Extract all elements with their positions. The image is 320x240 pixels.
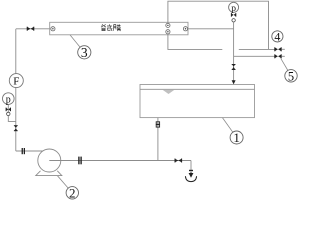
drain bar: [189, 170, 193, 171]
label circle 1: [230, 130, 243, 145]
svg-text:2: 2: [69, 185, 76, 200]
gauge valve right: [231, 13, 236, 17]
wire right vertical return: [233, 23, 235, 81]
pressure gauge P right bubble: [229, 2, 239, 14]
wire stub after valve 4: [282, 48, 285, 50]
pressure gauge P left bubble: [3, 93, 15, 106]
gauge valve left: [6, 108, 11, 112]
valve on bottom line: [175, 159, 183, 163]
membrane module M3 rect: [50, 22, 188, 35]
valve on return vertical: [232, 64, 236, 70]
wire permeate down: [168, 34, 222, 50]
pump U2 circle: [38, 149, 61, 172]
wire feed horizontal top-left: [16, 28, 50, 30]
membrane top port: [166, 23, 170, 27]
wire lower branch to valve 5: [234, 55, 275, 57]
valve on left vertical line: [14, 125, 18, 131]
leader to label 2: [58, 176, 69, 188]
wire drain drop: [190, 161, 192, 171]
wire tank outlet: [157, 118, 159, 161]
svg-text:4: 4: [274, 30, 280, 44]
svg-text:1: 1: [233, 130, 240, 145]
drain funnel: [185, 176, 196, 181]
wire feed vertical left: [15, 29, 17, 151]
svg-text:3: 3: [81, 45, 88, 60]
wire stub after valve 5: [282, 55, 285, 57]
arrow into tank: [232, 80, 236, 84]
label circle 4: [272, 30, 283, 44]
flange on suction: [22, 148, 25, 154]
level mark triangle: [163, 90, 175, 94]
flange on discharge: [78, 157, 82, 165]
union on tank outlet: [156, 122, 159, 127]
svg-text:5: 5: [288, 69, 294, 83]
pump base: [36, 171, 62, 176]
label circle 2: [66, 185, 78, 200]
tank liquid level line: [140, 88, 255, 90]
pressure gauge P left stub: [8, 104, 16, 121]
leader to label 5: [281, 58, 288, 70]
svg-text:F: F: [13, 76, 19, 88]
tank T1: [140, 85, 255, 118]
membrane bottom port: [166, 30, 170, 34]
wire membrane top riser: [168, 1, 269, 49]
wire retentate line to right: [188, 28, 234, 30]
wire suction line: [16, 150, 45, 152]
leader to label 1: [222, 118, 232, 133]
glyph guan: [102, 24, 106, 25]
glyph shi: [107, 24, 112, 31]
wire discharge line: [49, 160, 191, 162]
wire permeate to valve 4: [239, 48, 275, 50]
valve outlet 5: [274, 54, 281, 58]
svg-text:p: p: [231, 4, 236, 14]
svg-text:p: p: [6, 94, 11, 105]
gauge tap circle left: [7, 112, 10, 115]
label circle 5: [285, 69, 297, 83]
leader to label 3: [70, 35, 80, 47]
gauge tap circle right: [232, 19, 235, 22]
membrane left port: [51, 27, 55, 31]
glyph mo: [114, 25, 116, 31]
valve feed (top-left): [27, 27, 35, 31]
label circle 3: [78, 45, 91, 60]
valve outlet 4: [274, 47, 281, 51]
drain arrow: [189, 172, 192, 177]
membrane right port: [183, 27, 187, 31]
membrane label text 管式膜: [101, 24, 121, 31]
flow meter F1: [9, 74, 23, 88]
